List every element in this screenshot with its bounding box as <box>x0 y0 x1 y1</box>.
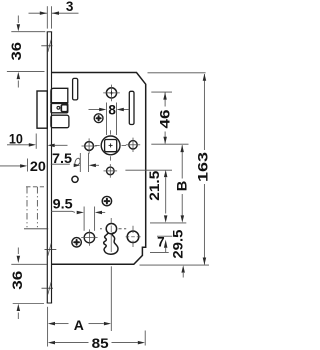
svg-text:36: 36 <box>9 271 25 290</box>
svg-text:A: A <box>74 317 84 333</box>
svg-text:21.5: 21.5 <box>146 170 162 200</box>
svg-text:10: 10 <box>9 131 23 147</box>
svg-text:8: 8 <box>108 103 116 118</box>
svg-text:163: 163 <box>194 152 210 182</box>
svg-text:46: 46 <box>157 109 173 128</box>
svg-text:9.5: 9.5 <box>53 196 73 212</box>
svg-text:20: 20 <box>30 158 46 174</box>
svg-text:7: 7 <box>157 234 165 249</box>
svg-text:B: B <box>173 181 189 192</box>
svg-text:3: 3 <box>66 0 74 14</box>
svg-text:29.5: 29.5 <box>170 229 186 258</box>
svg-text:85: 85 <box>92 335 109 350</box>
svg-text:36: 36 <box>8 42 24 61</box>
svg-text:7.5: 7.5 <box>52 150 72 166</box>
